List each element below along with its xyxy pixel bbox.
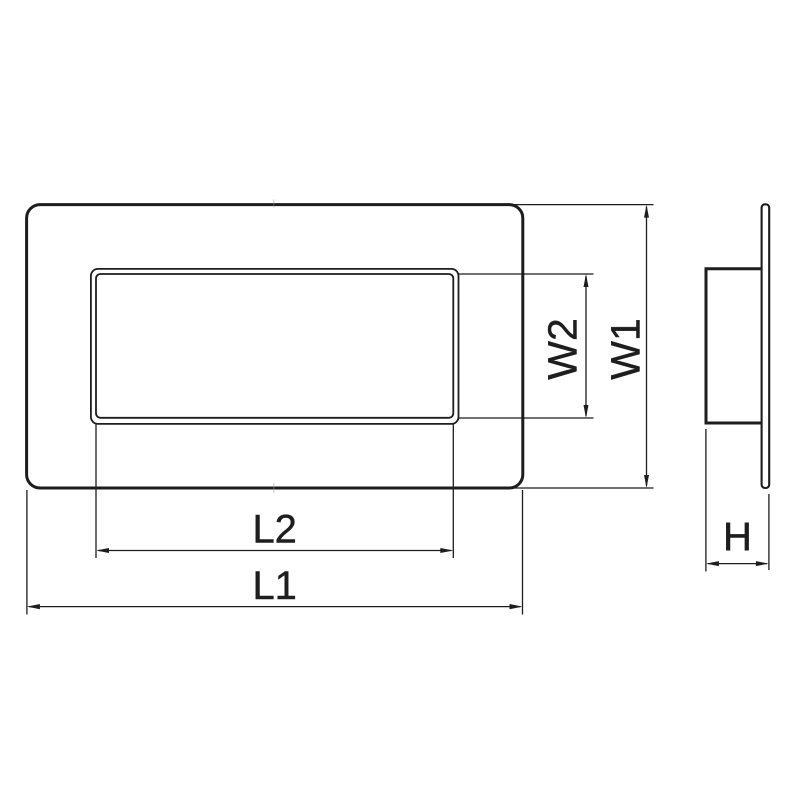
svg-text:H: H	[723, 515, 752, 559]
dimension W1 extension line top	[512, 204, 654, 206]
dimension H arrow left	[706, 561, 719, 566]
dimension L1 arrow left	[27, 604, 40, 609]
dimension H extension line left	[705, 429, 707, 572]
dimension W1 extension line bottom	[512, 487, 654, 489]
dimension L1 line	[29, 606, 521, 608]
dimension L2 arrow right	[440, 548, 453, 553]
dimension W2 line	[585, 276, 587, 416]
dimension H line	[708, 563, 767, 565]
dimension L2 extension line left	[95, 425, 97, 559]
dimension W2 arrow down	[584, 405, 589, 418]
side view: body profile	[706, 269, 763, 423]
svg-text:W2: W2	[540, 318, 586, 380]
dimension W2 extension line bottom	[459, 417, 594, 419]
dimension H arrow right	[756, 561, 769, 566]
dimension W1 line	[646, 207, 648, 486]
svg-text:L1: L1	[252, 564, 297, 608]
front view: recess outer line	[91, 269, 459, 424]
dimension W1 arrow down	[644, 475, 649, 488]
dimension L1 arrow right	[510, 604, 523, 609]
dimension L1 extension line left	[26, 490, 28, 615]
centerline tick bottom	[273, 483, 275, 493]
svg-text:W1: W1	[603, 318, 649, 380]
front view: outer body outline	[27, 205, 523, 488]
dimension W2 arrow up	[584, 274, 589, 287]
side view: flange plate	[762, 204, 770, 488]
dimension L2 line	[98, 550, 451, 552]
dimension L2 extension line right	[452, 425, 454, 559]
svg-text:L2: L2	[252, 508, 297, 552]
dimension L1 extension line right	[522, 490, 524, 615]
front view: recess inner line	[96, 274, 453, 418]
dimension H extension line right	[768, 494, 770, 570]
dimension W1 arrow up	[644, 205, 649, 218]
centerline tick top	[273, 200, 275, 208]
dimension W2 extension line top	[459, 273, 594, 275]
dimension L2 arrow left	[96, 548, 109, 553]
